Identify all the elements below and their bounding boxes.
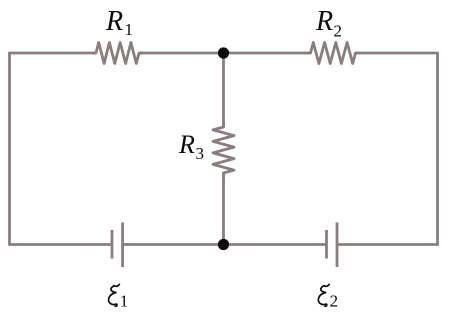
wire middle vertical lower segment bbox=[222, 173, 225, 245]
svg-text:1: 1 bbox=[120, 292, 129, 311]
svg-text:R: R bbox=[105, 6, 123, 37]
wire top-left segment bbox=[8, 52, 96, 55]
label xi2 bbox=[318, 284, 338, 310]
svg-text:2: 2 bbox=[334, 22, 343, 41]
wire top-middle segment bbox=[139, 52, 311, 55]
svg-text:3: 3 bbox=[196, 144, 205, 163]
wire left vertical side bbox=[8, 53, 11, 245]
wire bottom-right segment bbox=[337, 243, 439, 246]
node junction top bbox=[218, 47, 229, 58]
wire right vertical side bbox=[436, 53, 439, 245]
battery cell 1 short plate (negative) bbox=[111, 230, 114, 259]
battery cell 1 long plate (positive) bbox=[121, 223, 124, 268]
svg-text:R: R bbox=[178, 130, 195, 159]
label R1 bbox=[105, 6, 133, 39]
battery cell 2 long plate (positive) bbox=[336, 223, 339, 268]
node junction bottom bbox=[218, 239, 229, 250]
svg-text:1: 1 bbox=[125, 20, 134, 39]
resistor R2 bbox=[307, 43, 360, 64]
svg-text:2: 2 bbox=[330, 292, 339, 311]
wire bottom-middle segment bbox=[123, 243, 327, 246]
svg-text:R: R bbox=[315, 6, 333, 37]
battery cell 2 short plate (negative) bbox=[325, 230, 328, 259]
wire top-right segment bbox=[356, 52, 439, 55]
wire middle vertical upper segment bbox=[222, 53, 225, 127]
label R2 bbox=[315, 6, 342, 40]
resistor R1 bbox=[92, 43, 143, 64]
label xi1 bbox=[109, 284, 129, 310]
wire bottom-left segment bbox=[8, 243, 112, 246]
resistor R3 bbox=[213, 123, 234, 177]
label R3 bbox=[178, 130, 204, 163]
